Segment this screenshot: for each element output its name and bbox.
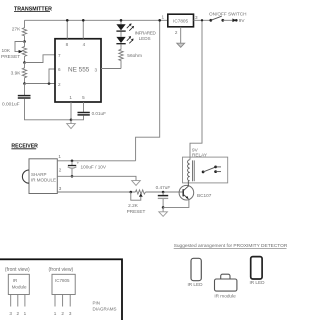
svg-text:(front view): (front view) xyxy=(49,267,74,273)
svg-text:IR module: IR module xyxy=(214,294,236,299)
svg-text:PRESET: PRESET xyxy=(1,54,20,60)
svg-text:NE 555: NE 555 xyxy=(68,67,90,74)
svg-text:3: 3 xyxy=(9,311,12,316)
svg-text:1: 1 xyxy=(54,311,57,316)
svg-text:2: 2 xyxy=(175,30,178,35)
preset 2.2K wiper xyxy=(139,193,143,196)
svg-text:IC7805: IC7805 xyxy=(55,278,70,283)
svg-text:2: 2 xyxy=(59,168,62,173)
svg-text:2: 2 xyxy=(17,311,20,316)
svg-text:Suggested arrangement for PROX: Suggested arrangement for PROXIMITY DETE… xyxy=(174,243,288,249)
svg-text:0.01uF: 0.01uF xyxy=(92,111,106,116)
relay contact NO xyxy=(214,166,217,169)
svg-text:10K: 10K xyxy=(2,48,11,54)
IR module drawing xyxy=(221,274,230,279)
wire to pin 7 xyxy=(25,55,56,63)
wire IC7805 output xyxy=(194,19,211,21)
capacitor 0.001uF xyxy=(24,84,26,96)
wire 5V down-feed to receiver xyxy=(136,20,160,161)
collector xyxy=(183,181,188,191)
svg-text:4: 4 xyxy=(83,42,86,47)
svg-text:+: + xyxy=(77,160,80,165)
wire LED branch top xyxy=(120,20,122,24)
LED2 emission arrows xyxy=(127,37,133,43)
wire wiper link xyxy=(15,42,25,52)
IC7805 package pins xyxy=(54,295,56,307)
svg-text:8: 8 xyxy=(66,42,69,47)
svg-text:ON/OFF SWITCH: ON/OFF SWITCH xyxy=(209,12,247,17)
svg-text:INFRARED: INFRARED xyxy=(135,30,157,35)
wire pin 6 link xyxy=(49,69,55,84)
preset 2.2K body xyxy=(136,190,146,194)
svg-text:IR LED: IR LED xyxy=(249,280,265,285)
svg-text:1: 1 xyxy=(24,311,27,316)
regulator U2 IC7805 xyxy=(168,14,194,27)
capacitor 100uF/10V xyxy=(71,161,73,165)
node junction pin6 drop xyxy=(48,82,51,85)
svg-text:SHARP: SHARP xyxy=(31,172,47,177)
svg-text:5: 5 xyxy=(82,95,85,100)
ground IC7805 xyxy=(180,27,182,43)
svg-text:PRESET: PRESET xyxy=(127,209,146,214)
svg-text:3: 3 xyxy=(94,67,97,72)
diode LED1 infrared xyxy=(116,24,125,30)
svg-text:9V: 9V xyxy=(239,18,246,23)
wire pin 8 xyxy=(66,20,68,38)
IR module package pins xyxy=(10,295,12,307)
svg-text:3: 3 xyxy=(195,15,198,20)
svg-text:0.47uF: 0.47uF xyxy=(156,185,171,190)
title TRANSMITTER xyxy=(14,7,52,13)
svg-text:Module: Module xyxy=(12,285,27,290)
IR LED right drawing xyxy=(251,257,262,279)
title RECEIVER xyxy=(11,144,38,150)
wire module pin1 5V xyxy=(57,160,135,162)
ground emitter node xyxy=(162,207,164,211)
relay RL1 9V xyxy=(192,147,208,157)
emitter xyxy=(183,194,187,198)
IR module U3 SHARP xyxy=(29,159,57,194)
svg-text:PIN: PIN xyxy=(93,300,101,305)
svg-text:3: 3 xyxy=(59,186,62,191)
svg-text:3.9K: 3.9K xyxy=(11,71,22,77)
IC7805 package xyxy=(52,274,75,294)
svg-text:2: 2 xyxy=(58,82,61,87)
svg-text:DIAGRAMS: DIAGRAMS xyxy=(93,307,117,312)
preset 10K body xyxy=(22,42,26,63)
resistor 56ohm xyxy=(119,48,123,69)
svg-text:2: 2 xyxy=(61,311,64,316)
svg-text:IR MODULE: IR MODULE xyxy=(31,178,56,183)
svg-text:IR LED: IR LED xyxy=(187,282,203,287)
relay coil xyxy=(189,157,191,160)
wire to pin 2 xyxy=(25,83,56,85)
wire module pin3 output xyxy=(57,191,135,193)
relay contact common xyxy=(202,171,205,174)
svg-text:56ohm: 56ohm xyxy=(127,53,142,59)
svg-text:7: 7 xyxy=(58,53,61,58)
wire to 9V xyxy=(223,19,233,21)
switch ON/OFF xyxy=(209,12,247,17)
svg-text:6: 6 xyxy=(58,67,61,72)
wire pin 1 to ground rail xyxy=(70,102,72,120)
relay core xyxy=(191,160,193,181)
svg-text:(front view): (front view) xyxy=(5,267,30,273)
capacitor 0.01uF on pin 5 xyxy=(83,102,85,112)
transistor Q1 BC107 xyxy=(179,185,194,200)
IR module lens xyxy=(22,170,29,183)
preset 10K wiper arrow xyxy=(19,50,23,53)
label PIN DIAGRAMS xyxy=(93,300,117,311)
IR module package xyxy=(8,274,29,294)
resistor 3.9K xyxy=(22,63,26,84)
wire 9V feed to relay xyxy=(190,20,202,157)
svg-text:IC7805: IC7805 xyxy=(173,18,189,23)
wire pin 3 output xyxy=(101,68,121,70)
svg-text:2.2K: 2.2K xyxy=(128,203,139,208)
svg-text:100uF / 10V: 100uF / 10V xyxy=(81,165,107,170)
node junction preset/3.9K xyxy=(23,61,26,64)
svg-text:IR: IR xyxy=(13,278,18,283)
ground transmitter xyxy=(70,120,72,124)
svg-text:1: 1 xyxy=(58,154,61,159)
LED1 emission arrows xyxy=(127,24,133,30)
svg-text:27K: 27K xyxy=(12,27,21,33)
resistor 27K xyxy=(22,20,26,41)
IR LED left drawing xyxy=(191,258,201,280)
diode LED2 infrared xyxy=(116,37,125,43)
wire to transistor base xyxy=(146,191,184,193)
svg-text:0.001uF: 0.001uF xyxy=(2,102,20,108)
wire pin 4 xyxy=(82,20,84,38)
ground module xyxy=(132,181,141,186)
svg-text:BC107: BC107 xyxy=(197,193,212,198)
op-amp U1 NE 555 box xyxy=(55,39,101,102)
svg-text:3: 3 xyxy=(69,311,72,316)
wire module pin2 ground xyxy=(57,176,136,180)
node junction 27K/preset xyxy=(23,40,26,43)
title suggested arrangement xyxy=(174,243,288,249)
svg-text:LEDS: LEDS xyxy=(139,36,151,41)
node junction 3.9K/pin2 xyxy=(23,82,26,85)
capacitor 0.47uF xyxy=(162,191,165,194)
svg-text:1: 1 xyxy=(162,15,165,20)
relay contact NC xyxy=(214,170,217,173)
pin diagrams box xyxy=(0,259,122,320)
svg-text:1: 1 xyxy=(69,95,72,100)
wire top 5V rail xyxy=(25,19,168,21)
